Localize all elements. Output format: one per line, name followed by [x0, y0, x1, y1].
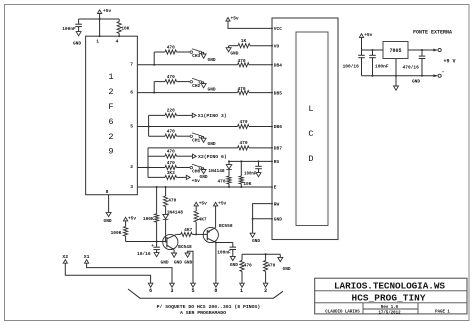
switch CH3 to ground [177, 51, 191, 53]
svg-text:LARIOS.TECNOLOGIA.WS: LARIOS.TECNOLOGIA.WS [334, 281, 445, 292]
svg-text:1N4148: 1N4148 [167, 209, 184, 215]
junction RS-diode [228, 160, 230, 162]
resistor 470 (socket pin 2) [265, 254, 267, 260]
capacitor 100nF (IC decoupling) [78, 19, 80, 24]
wire gnd to socket pin 5 [188, 251, 193, 283]
svg-text:GND: GND [274, 217, 282, 223]
socket pin 1 arrow [240, 283, 245, 287]
svg-text:1N4148: 1N4148 [208, 168, 225, 174]
socket bracket [128, 289, 283, 298]
wire X2 to socket pin 6 [65, 263, 150, 283]
svg-text:GND: GND [230, 51, 238, 57]
svg-text:GND: GND [208, 141, 216, 147]
resistor 470 (CH0 branch) [165, 165, 177, 169]
ground (RS cap) [256, 173, 261, 177]
resistor 100K (pullup) [125, 221, 127, 227]
junction pin6 branch [153, 92, 155, 94]
junction E-470 [228, 186, 230, 188]
wire X1 row [149, 114, 165, 116]
svg-text:4K7: 4K7 [184, 227, 192, 233]
wire pin5 to DB6 [137, 126, 237, 128]
transistor Q1 BC548 [163, 234, 178, 249]
svg-text:2: 2 [130, 164, 133, 170]
wire pin3 to LCD E [137, 186, 272, 188]
terminal +9V positive [433, 49, 437, 52]
svg-text:470: 470 [167, 129, 175, 135]
svg-text:GND: GND [230, 262, 238, 268]
svg-text:GND: GND [252, 238, 260, 244]
switch CH1 to ground [177, 135, 191, 137]
resistor 10K (MCLR pullup) [118, 19, 120, 22]
svg-text:6: 6 [108, 117, 113, 127]
svg-text:CH1: CH1 [192, 137, 200, 143]
wire DB7 row [148, 147, 238, 149]
svg-text:+9 V: +9 V [443, 58, 455, 64]
svg-text:F: F [108, 102, 113, 112]
capacitor 100nF (PSU) [372, 50, 374, 55]
svg-text:6: 6 [130, 90, 133, 96]
svg-text:9: 9 [108, 147, 113, 157]
svg-text:4K7: 4K7 [199, 216, 207, 222]
ground (LCD RW/GND) [250, 233, 255, 237]
svg-text:470: 470 [267, 262, 275, 268]
LCD inner window [296, 32, 328, 226]
wire CH1 row [149, 135, 165, 137]
svg-text:GND: GND [174, 260, 182, 266]
junction RS-10K [240, 160, 242, 162]
svg-text:DB5: DB5 [274, 90, 282, 96]
junction pin3 b [165, 186, 167, 188]
resistor 470 (DB6 series) [238, 124, 250, 128]
svg-text:+5v: +5v [231, 16, 239, 22]
resistor 470 (DB4 series) [238, 63, 250, 67]
svg-text:GND: GND [200, 174, 208, 180]
svg-text:3: 3 [130, 184, 133, 190]
svg-text:7: 7 [130, 62, 133, 68]
junction +5v [99, 18, 101, 20]
svg-text:8: 8 [106, 189, 109, 195]
wire RS row [229, 160, 272, 162]
wire base rail [126, 241, 167, 243]
wire LCD GND pin [253, 218, 272, 220]
svg-text:CH3: CH3 [192, 53, 200, 59]
svg-text:GND: GND [161, 260, 169, 266]
svg-text:D: D [308, 154, 313, 164]
svg-text:10/16: 10/16 [137, 251, 151, 257]
svg-text:FONTE EXTERNA: FONTE EXTERNA [413, 30, 452, 36]
svg-text:100nF: 100nF [217, 249, 231, 255]
resistor 220 (X1 series) [165, 113, 177, 117]
svg-text:+5v: +5v [192, 178, 201, 184]
svg-text:470: 470 [167, 74, 175, 80]
svg-text:+5v: +5v [364, 32, 373, 38]
title block row divider 1 [315, 290, 467, 292]
title block row divider 2 [315, 302, 467, 304]
svg-text:DB6: DB6 [274, 124, 282, 130]
resistor 3K3 (to +5v) [165, 175, 177, 179]
junction top rail caps [372, 49, 374, 51]
svg-text:4: 4 [116, 39, 119, 45]
resistor 100K (pin3 to base) [156, 187, 158, 214]
switch CH0 to ground [177, 167, 191, 169]
junction Q2 collector [215, 242, 217, 244]
title block frame [315, 278, 467, 314]
wire pin2 from IC [137, 167, 165, 169]
svg-text:+5v: +5v [199, 200, 207, 206]
resistor 470 (CH2 branch) [165, 80, 177, 84]
resistor 470 (below RS diode) [227, 176, 231, 184]
wire RW to GND tie [253, 204, 272, 234]
wire VO row [229, 45, 238, 47]
wire pin6 to DB5 [137, 92, 237, 94]
title block column divider right [417, 303, 419, 314]
wire Q2 collector to socket pin 8 [215, 243, 217, 284]
resistor 470 (DB7 series) [238, 146, 250, 150]
wire Q2 collector to cap [216, 242, 233, 244]
wire pin8 to ground [108, 195, 110, 213]
resistor 4K7 (Q1 collector - Q2 base) [181, 232, 193, 236]
svg-text:3K3: 3K3 [167, 170, 175, 176]
ground (Q1 emitter) [172, 253, 177, 257]
switch CH2 to ground [177, 81, 191, 83]
svg-text:2: 2 [264, 288, 267, 294]
wire X1 to socket pin 3 [87, 263, 172, 283]
IC U1 PIC12F629 body [86, 36, 138, 195]
junction 470 rail [265, 253, 267, 255]
capacitor 10/16 polarized (base) [156, 242, 158, 248]
title block column divider left [362, 303, 364, 314]
resistor 10K (RS-E) [240, 161, 242, 176]
svg-text:+: + [151, 244, 154, 249]
socket pin 3 arrow [170, 283, 175, 287]
svg-text:2: 2 [108, 132, 113, 142]
svg-text:17/5/2012: 17/5/2012 [378, 310, 401, 315]
LCD module body [272, 18, 338, 240]
power +5v (4K7 pullup) [194, 202, 198, 206]
diode 1N4148 (RS) [228, 161, 230, 164]
svg-text:470: 470 [239, 140, 247, 146]
capacitor 100/16 polarized (PSU output) [361, 50, 363, 55]
svg-text:470: 470 [167, 44, 175, 50]
resistor 470 (X2 series) [165, 154, 177, 158]
svg-text:-: - [441, 69, 444, 75]
ground (470 rail) [279, 254, 281, 257]
wire collector Q1 to 4K7 [176, 233, 180, 235]
svg-text:CLAUDIO LARIOS: CLAUDIO LARIOS [325, 311, 360, 315]
ground (PSU) [395, 76, 397, 86]
svg-text:470/16: 470/16 [403, 65, 420, 71]
junction E-10K [240, 186, 242, 188]
svg-text:CH0: CH0 [192, 169, 200, 175]
ground (socket pin 5 tie) [185, 253, 190, 257]
svg-text:C: C [308, 129, 313, 139]
svg-text:100nF: 100nF [244, 173, 257, 177]
svg-text:470: 470 [167, 149, 175, 155]
capacitor 470/16 polarized (PSU input) [421, 50, 423, 56]
svg-text:DB7: DB7 [274, 146, 282, 152]
ground (100nF cap) [76, 32, 81, 36]
svg-text:Rev 1.0: Rev 1.0 [381, 306, 399, 310]
svg-text:X1(PINO 3): X1(PINO 3) [198, 113, 227, 119]
wire X2 row [148, 155, 165, 157]
ground (IC pin 8) [106, 212, 111, 216]
ground (VO contrast) [226, 48, 231, 52]
svg-text:VCC: VCC [274, 26, 282, 32]
socket pin 2 arrow [263, 283, 268, 287]
socket pin 8 arrow [214, 283, 219, 287]
svg-text:P/ SOQUETE DO HCS 200..301 (8: P/ SOQUETE DO HCS 200..301 (8 PINOS) [157, 304, 261, 310]
svg-text:GND: GND [283, 266, 291, 272]
junction pin5 [148, 126, 150, 128]
resistor 4K7 (pullup) [195, 206, 197, 211]
svg-text:GND: GND [208, 87, 216, 93]
svg-text:HCS_PROG_TINY: HCS_PROG_TINY [352, 292, 426, 303]
svg-text:100nF: 100nF [375, 63, 389, 69]
svg-text:470: 470 [217, 179, 225, 185]
svg-text:X2(PINO 6): X2(PINO 6) [198, 154, 227, 160]
svg-text:1: 1 [108, 72, 113, 82]
svg-text:6: 6 [149, 288, 152, 294]
svg-text:+5v: +5v [128, 215, 136, 221]
resistor 470 (CH1 branch) [165, 134, 177, 138]
wire PSU top rail [362, 49, 384, 51]
junction pin2 [147, 167, 149, 169]
junction base-100K [156, 241, 158, 243]
svg-text:GND: GND [412, 79, 420, 85]
svg-text:5: 5 [191, 288, 194, 294]
svg-text:GND: GND [104, 218, 112, 224]
node X1(PINO 3) output arrow [192, 113, 196, 117]
svg-text:DB4: DB4 [274, 63, 282, 69]
power +5v rail (IC) [98, 10, 102, 14]
svg-text:1: 1 [96, 39, 99, 45]
wire PSU bottom rail [362, 75, 438, 77]
power +5v (100K pullup) [124, 217, 128, 221]
terminal negative [433, 74, 437, 77]
svg-text:5: 5 [130, 123, 133, 129]
junction bottom rail [372, 75, 374, 77]
svg-text:GND: GND [208, 57, 216, 63]
svg-text:470: 470 [168, 197, 176, 203]
junction base-diode [165, 241, 167, 243]
svg-text:8: 8 [214, 288, 217, 294]
svg-text:470: 470 [237, 58, 245, 64]
socket pin 6 arrow [148, 283, 153, 287]
resistor 470 (socket pin 1) [241, 254, 243, 260]
ground (Q2 cap) [230, 256, 235, 260]
wire pin7 to DB4 [137, 64, 237, 66]
junction RW-GND [252, 218, 254, 220]
svg-text:GND: GND [73, 40, 81, 46]
svg-text:CH2: CH2 [192, 83, 200, 89]
svg-text:VO: VO [274, 43, 280, 49]
wire pin2 branch vertical [147, 148, 149, 178]
svg-text:1K: 1K [241, 38, 247, 44]
wire pin5 branch vertical [148, 115, 150, 136]
svg-text:220: 220 [167, 108, 175, 114]
svg-text:BC548: BC548 [178, 244, 192, 250]
resistor 470 (pin3 column) [165, 187, 167, 196]
capacitor 100nF (Q2 collector) [232, 243, 234, 248]
node X2(PINO 6) output arrow [193, 154, 197, 158]
regulator U2 7805 [383, 42, 408, 59]
power +5v (Q2 emitter) [214, 202, 218, 206]
transistor Q2 BC558 [203, 227, 218, 242]
svg-text:3: 3 [170, 288, 173, 294]
wire branch up pin7 [153, 52, 155, 65]
svg-text:L: L [308, 104, 313, 114]
svg-text:470: 470 [167, 160, 175, 166]
junction pin7 branch [153, 64, 155, 66]
junction Q2 base node [195, 233, 197, 235]
svg-text:+5v: +5v [103, 8, 112, 14]
svg-text:RW: RW [274, 201, 280, 207]
svg-text:+5v: +5v [218, 200, 226, 206]
svg-text:A SER PROGRAMADO: A SER PROGRAMADO [180, 310, 226, 316]
svg-text:10K: 10K [121, 25, 129, 31]
node +5v arrow (3K3) [186, 175, 190, 179]
svg-text:2: 2 [108, 87, 113, 97]
junction pin3 a [156, 186, 158, 188]
svg-text:100nF: 100nF [62, 26, 76, 32]
title block rev divider [363, 308, 418, 310]
svg-text:BC558: BC558 [219, 223, 233, 229]
wire branch up pin6 [153, 82, 155, 93]
svg-text:100K: 100K [143, 216, 154, 222]
svg-text:PAGE 1: PAGE 1 [435, 311, 450, 315]
resistor 1K (VO) [238, 44, 250, 48]
socket pin 5 arrow [191, 283, 196, 287]
svg-text:7805: 7805 [389, 48, 401, 54]
junction RS-100nF [258, 160, 260, 162]
svg-text:GND: GND [184, 260, 192, 266]
resistor 470 (CH3 branch) [165, 50, 177, 54]
svg-text:470: 470 [244, 262, 252, 268]
svg-text:E: E [274, 185, 277, 191]
wire 3K3 row [148, 176, 165, 178]
capacitor 100nF (RS) [258, 161, 260, 166]
ground (10/16 cap) [154, 253, 159, 257]
svg-text:100/16: 100/16 [343, 63, 360, 69]
svg-text:1: 1 [240, 288, 243, 294]
svg-text:100K: 100K [111, 230, 122, 236]
svg-text:10K: 10K [243, 181, 251, 187]
power +5v output (PSU) [359, 34, 363, 38]
resistor 470 (DB5 series) [238, 91, 250, 95]
svg-text:470: 470 [239, 119, 247, 125]
power +5v (LCD VCC) [226, 18, 230, 22]
wire 7805 GND pin [395, 59, 397, 76]
wire +5v to VCC [228, 21, 272, 28]
wire 470 rail (pins 1,2) [242, 253, 280, 255]
wire emitter Q1 to ground [173, 250, 175, 253]
svg-text:470: 470 [237, 86, 245, 92]
svg-text:RS: RS [274, 159, 280, 165]
